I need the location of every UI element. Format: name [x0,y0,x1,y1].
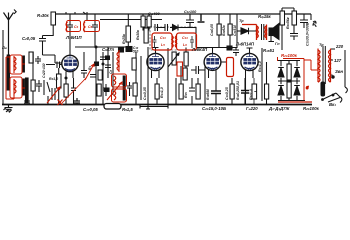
blob osc3 [105,88,110,92]
svg-text:R930к: R930к [136,30,140,40]
svg-text:С8: С8 [109,70,113,74]
osc section verticals [96,47,113,104]
wire rb4 [231,78,233,104]
wire t2 [229,14,231,47]
osc coil core [123,76,125,100]
input coil core4 [23,79,25,95]
speaker [269,24,279,40]
svg-text:С20,05: С20,05 [22,36,36,41]
varcap plates [48,88,55,104]
red right wiring [278,57,319,100]
svg-text:R190,25: R190,25 [236,88,240,100]
red coil bumps box2 [84,22,86,32]
wire mid bus right [196,47,237,49]
tube T1 [62,52,78,78]
resistor R9b top [147,16,151,27]
svg-text:R131,0: R131,0 [160,87,164,98]
caps mid [191,66,205,74]
resistor Rb6 [265,84,269,99]
svg-text:127: 127 [334,58,342,63]
svg-text:Л26К4П: Л26К4П [191,47,208,52]
red osc coil [117,50,119,72]
svg-text:R2062к: R2062к [222,25,226,36]
switch [323,93,341,102]
svg-text:Д1·Д3Д7Ж: Д1·Д3Д7Ж [268,106,290,111]
pot with wiper [167,48,169,104]
svg-text:Тр: Тр [319,43,324,47]
input coil core2 [7,55,9,90]
svg-text:С12100: С12100 [184,10,197,14]
wire bottom bus [2,104,312,106]
red gang diagonal [62,78,86,103]
junction dots [95,46,97,48]
svg-text:L5: L5 [161,43,165,47]
tick marks bottom bus [33,100,103,105]
vertical resistor R11 [144,28,148,43]
red ferrite coil windings [14,56,16,73]
wire r2 [58,68,60,104]
svg-text:Пм: Пм [2,46,8,50]
resistor Rv2 [292,11,297,25]
svg-text:Гн220: Гн220 [246,106,258,111]
cap on bus1 [24,98,30,103]
svg-text:R24100к: R24100к [303,106,320,111]
small box osc2 [97,84,101,96]
trimmer left2 [36,80,50,95]
resistor Rb4 [230,84,234,99]
capacitor C2 [39,36,46,56]
red IF inner bumps [172,36,177,48]
antenna [4,13,14,56]
ground symbol [4,105,13,113]
wire x84 [81,52,87,78]
red osc box coils [114,76,116,100]
cap on bus2 [74,98,80,105]
diode b1 [278,68,284,78]
speaker gnd [269,36,275,42]
wire sub bus [100,19,162,21]
vertical x70 tube1 top [69,32,71,53]
thick cap bar [211,91,221,94]
svg-text:R1851: R1851 [263,48,275,53]
capacitor mid2 [233,48,239,57]
small caps osc [90,57,111,77]
svg-text:R430к: R430к [37,13,50,18]
svg-text:R2056к: R2056к [286,17,290,29]
svg-text:R16680: R16680 [206,89,210,100]
red IF transformer coils [152,33,172,50]
small box osc [98,70,102,80]
vertical x128 [127,14,129,47]
svg-text:С21510: С21510 [233,25,237,36]
svg-text:220: 220 [335,44,344,49]
svg-text:С4: С4 [74,25,79,29]
squiggle [313,21,316,27]
verticals x136 x141 [136,52,141,104]
bridge col verticals [281,61,297,101]
wire rb6 [266,62,268,104]
diode b3 [294,68,300,78]
resistor Rv1 [280,11,285,25]
svg-text:Гн: Гн [275,42,280,46]
box filter top [29,52,33,63]
red connect left [6,57,25,99]
svg-text:510: 510 [133,50,139,54]
svg-text:С170,05: С170,05 [83,107,98,112]
wire R1 lead [43,25,54,36]
wire x143 [143,14,149,30]
wire x311 [310,14,312,20]
trimmer left1 [35,56,41,64]
resistor R8 [126,26,131,42]
svg-text:С13: С13 [160,36,166,40]
svg-text:R51,5: R51,5 [122,107,133,112]
wire diode det [237,30,241,32]
tube T3 [204,48,226,79]
input coil core [26,78,29,102]
wire antenna spark [14,10,16,14]
resistor Rr1 [287,64,291,80]
wire r12 [185,48,187,79]
svg-text:R21,0: R21,0 [49,77,58,81]
vertical x33 [32,52,34,104]
tube T4 [241,48,258,104]
svg-text:С947п: С947п [102,47,115,52]
svg-text:Вк1: Вк1 [329,102,336,107]
trimmer bottom mid [127,82,132,96]
tick marks top [66,12,87,20]
blob osc1 [95,62,99,66]
resistor Rb2 [179,84,183,99]
resistor Rb3 [196,84,200,99]
red bottom right bus [278,101,312,103]
resistor R1 [51,12,56,25]
resistor R5 horizontal [104,104,121,110]
wire cap b2 [244,78,246,104]
svg-text:С14: С14 [182,36,188,40]
blob osc2 [106,56,110,60]
red arrow osc [107,82,122,100]
diode b4 [294,86,300,96]
red elements [6,21,331,106]
terminal dot [332,76,334,78]
capacitor C4 [46,62,62,69]
dial bracket [140,104,168,109]
red osc boxes [112,74,127,87]
cap under tube1 [71,78,76,104]
svg-text:R23100к: R23100к [281,53,298,58]
svg-text:Звн: Звн [335,69,343,74]
red box C4 [67,21,81,32]
wire mid bus [75,46,131,48]
svg-text:0,01: 0,01 [236,81,240,88]
red x mark [58,100,63,106]
transformer core [262,24,264,40]
wire rv [282,8,294,50]
red output transformer [242,25,258,41]
trimmer IF right [190,36,194,48]
resistor R2 [57,74,62,88]
svg-text:R211,0: R211,0 [258,61,262,72]
transformer core right [323,46,325,84]
input coil core3 [23,56,25,72]
svg-text:С2415,0·10Б: С2415,0·10Б [202,106,226,111]
svg-text:б: б [306,86,309,90]
pot wiper arrow [168,53,179,67]
svg-text:L6: L6 [183,43,187,47]
capacitor C12 [186,14,194,28]
capacitor C13 gnd [198,14,205,22]
cap b [189,88,195,91]
red transformer right winding [329,49,331,83]
svg-text:Л46П14П: Л46П14П [235,42,255,47]
resistor R12 [184,52,188,66]
blob mid [227,46,232,50]
red small rect mid [177,62,183,76]
resistor R9 top [141,16,145,27]
red box C6 [84,21,100,32]
svg-text:R15: R15 [184,92,188,98]
dashed IF box [150,27,196,50]
capacitor series group [155,24,168,31]
svg-text:Тр: Тр [239,19,244,23]
diode D [170,25,180,31]
box x134 [132,58,136,70]
vertical x237 [236,14,238,48]
trimmer in box2 [92,14,98,31]
red ferrite coil boxes [10,55,22,74]
resistor box t1 [217,24,221,35]
wire left vertical [2,30,4,104]
bridge rails [262,48,305,101]
trimmer IF left [153,36,157,48]
wire t1 [218,14,220,47]
resistor under tube1 [64,84,68,97]
capacitor C25 [300,14,308,28]
bottom components mid [148,47,205,104]
red resistor mid [227,58,234,77]
resistor Rb1 [155,84,159,99]
fuse [321,82,325,96]
junction blob [126,47,132,52]
vertical x196 [195,27,197,47]
red varcap arrow2 [85,64,94,80]
wire diode to cap [180,27,196,29]
svg-text:С6: С6 [88,25,93,29]
resistor Rr2 [287,82,291,98]
resistor box t2 [228,24,232,35]
wire grid cap to tube1 [43,55,63,63]
svg-text:R221,0: R221,0 [249,89,253,100]
svg-text:С160,05: С160,05 [143,86,147,100]
svg-text:С320·430: С320·430 [42,63,46,78]
svg-text:С2530,0×300В: С2530,0×300В [306,22,310,46]
red coil bumps box1 [66,22,68,32]
diode b2 [278,86,284,96]
red varcap arrow1 [47,87,60,103]
junction blob2 [119,47,124,52]
resistor mid2 [183,68,187,80]
tube T2 [147,48,164,79]
wire top bus [55,13,311,15]
svg-text:Rф15к: Rф15к [258,14,272,19]
svg-text:Сф400: Сф400 [148,12,160,16]
resistor Rb5 [252,84,257,99]
trimmer osc [104,84,109,96]
plug [336,87,347,103]
capacitor C26 gnd [290,34,298,41]
wire x216 [215,78,217,104]
svg-text:R725к: R725к [122,34,126,44]
svg-text:Л16И1П: Л16И1П [65,35,82,40]
taps [331,49,346,87]
svg-text:С200,05: С200,05 [210,24,214,36]
cap b2 thick [241,91,249,94]
wire under tube1 [65,78,67,104]
svg-text:С190,25: С190,25 [225,86,229,100]
trimmer in box1 [67,14,73,31]
box bottom mid [133,83,137,96]
wire rb5 [254,78,257,104]
vertical x95 [94,32,96,48]
red transformer left winding [318,49,320,83]
resistor boxes left-mid [31,80,35,91]
diode D2 [241,28,256,34]
